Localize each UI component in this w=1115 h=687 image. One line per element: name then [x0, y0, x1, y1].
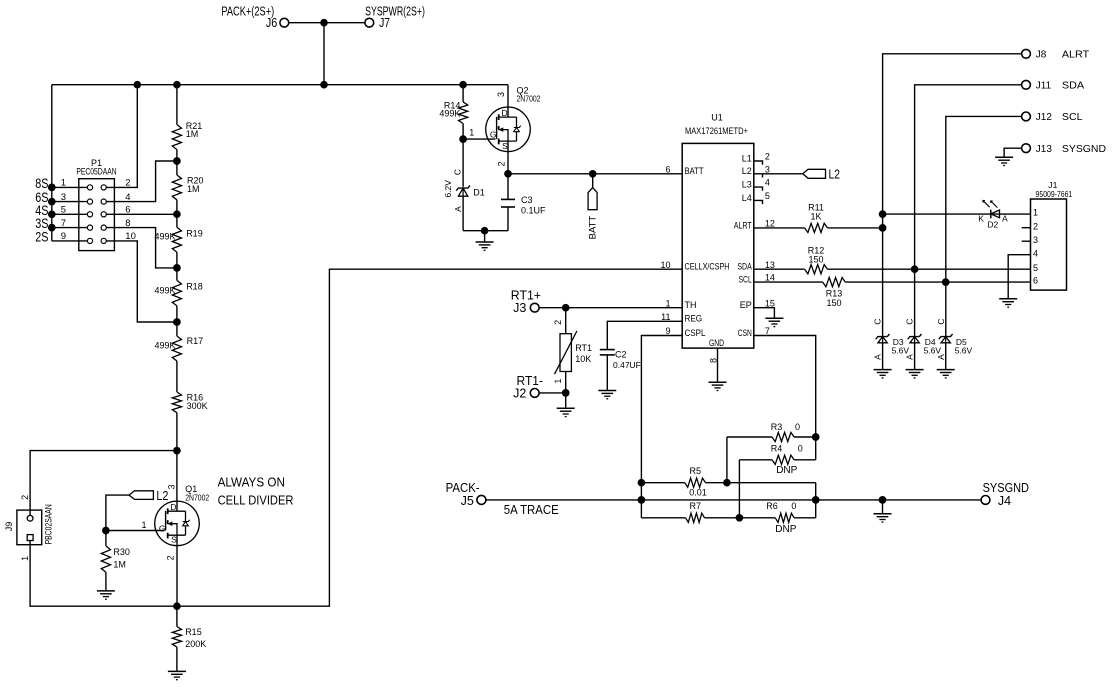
svg-text:14: 14 [765, 273, 775, 283]
diode D5 zener [939, 334, 953, 343]
svg-text:SCL: SCL [739, 275, 752, 285]
value J1 95009-7661 [1036, 189, 1073, 199]
svg-text:A: A [936, 354, 946, 360]
pin name GND [709, 338, 724, 348]
wire R13 to J1 pin6 [845, 281, 1030, 283]
wire J1 pin4 to ground [1008, 255, 1030, 299]
wire R17 to R16 [176, 361, 178, 392]
svg-text:5: 5 [765, 191, 770, 201]
svg-text:5.6V: 5.6V [924, 345, 942, 355]
wire R16 to Q1 drain [176, 413, 178, 502]
pin number J9-2 [20, 495, 30, 500]
label SDA [1062, 81, 1085, 92]
svg-text:2N7002: 2N7002 [517, 93, 541, 103]
svg-text:7: 7 [61, 218, 66, 229]
junction bus/R21 [173, 81, 181, 89]
pin stub J1-3 [1022, 240, 1031, 242]
wire C3 bottom lead [507, 207, 509, 231]
junction bus/P1 pin2 [133, 81, 141, 89]
svg-text:2: 2 [553, 320, 563, 325]
svg-text:K: K [978, 213, 984, 223]
ground J13 [995, 157, 1013, 165]
label R5 [690, 466, 702, 476]
label J13 [1036, 144, 1053, 155]
wire J8 to ALRT net [883, 54, 1022, 337]
pin number 11 [661, 312, 670, 322]
led D2 triangle [991, 210, 1000, 218]
pin number Q1-1 [142, 520, 147, 530]
svg-text:1: 1 [469, 127, 474, 137]
pin number 6 [665, 164, 670, 174]
svg-text:1: 1 [142, 520, 147, 530]
label J2 [513, 386, 526, 400]
svg-text:13: 13 [765, 260, 775, 270]
pin name CELLX/CSPH [685, 262, 730, 272]
wire Q2 source to BATT line [507, 152, 509, 174]
resistor R11 [805, 223, 828, 232]
svg-text:11: 11 [661, 312, 670, 322]
svg-text:2: 2 [1033, 221, 1038, 231]
junction Q2 source/C3 node [504, 170, 512, 178]
svg-text:MAX17261METD+: MAX17261METD+ [685, 126, 748, 136]
label D2 [987, 220, 998, 230]
label ALWAYS ON [218, 475, 285, 490]
svg-text:7: 7 [765, 326, 770, 336]
wire J2 to RT1 [539, 392, 566, 394]
label R17 [187, 336, 204, 346]
svg-text:C: C [873, 318, 883, 324]
pin number 7 [61, 218, 66, 229]
wire gate node to D1 [462, 139, 464, 187]
label J11 [1036, 81, 1052, 92]
label Q1 [185, 484, 197, 494]
value R3 0 [795, 422, 800, 432]
resistor R14 [459, 102, 468, 124]
ground C2 [598, 391, 616, 399]
pin P1-5 circle [87, 212, 92, 217]
wire CELLX/CSPH to bottom rail [177, 269, 682, 606]
thermistor RT1 body [560, 334, 571, 372]
pin number 5 [61, 205, 66, 216]
label U1 [711, 112, 723, 122]
pin J9-1 square [27, 535, 33, 541]
svg-text:U1: U1 [711, 112, 723, 122]
pin number Q2-3 [496, 92, 506, 97]
wire R3 left to R5 line [726, 437, 728, 483]
pin stub L3 [754, 187, 763, 191]
resistor R4 [772, 455, 794, 464]
svg-text:G: G [490, 129, 497, 139]
ground EP [765, 318, 783, 326]
svg-text:PACK+(2S+): PACK+(2S+) [221, 4, 274, 18]
label J7 [379, 16, 390, 30]
pin P1-9 circle [87, 238, 92, 243]
value R19 499K [154, 232, 175, 242]
svg-text:0.01: 0.01 [689, 487, 707, 497]
label PEC05DAAN [76, 167, 116, 177]
wire RT1 bottom lead [565, 372, 567, 393]
net label L2 (U1) [829, 168, 841, 182]
wire P1 pin4 to R21/R20 node [106, 161, 177, 202]
wire L2 flag to Q1 gate node [106, 495, 129, 530]
svg-text:J2: J2 [513, 386, 526, 400]
wire P1 pin2 to bus [106, 85, 137, 188]
pin stub L4 [754, 200, 763, 204]
svg-text:L3: L3 [742, 180, 752, 190]
led D2 cathode bar [990, 210, 992, 219]
op-amp U1 MAX17261METD+ body [682, 143, 754, 348]
pin number J1-6 [1033, 276, 1038, 286]
pin P1-10 circle [101, 238, 106, 243]
svg-text:0: 0 [791, 501, 796, 511]
svg-text:150: 150 [808, 255, 823, 265]
svg-text:SYSGND: SYSGND [983, 481, 1029, 495]
junction R5/CSPL node [638, 479, 646, 487]
label J8 [1036, 50, 1047, 61]
pin stub J1-2 [1022, 227, 1031, 229]
wire U1 SDA to R12 [754, 268, 805, 270]
wire RT1 top lead [565, 308, 567, 334]
ground D1/C3 [476, 242, 494, 250]
svg-text:DNP: DNP [776, 465, 797, 476]
label R3 [771, 422, 783, 432]
pin name EP [740, 300, 752, 310]
svg-text:15: 15 [765, 298, 775, 308]
wire J12 to SCL net [946, 116, 1022, 336]
svg-text:SDA: SDA [737, 262, 751, 272]
wire P1 pin6 to R20/R19 node [106, 213, 177, 215]
svg-text:R5: R5 [690, 466, 702, 476]
svg-text:L2: L2 [156, 489, 168, 503]
ground J1 pin4 [999, 299, 1017, 307]
net flag BATT [588, 188, 597, 210]
svg-text:SYSGND: SYSGND [1062, 144, 1106, 155]
svg-text:C: C [905, 318, 915, 324]
junction BATT flag node [589, 170, 597, 178]
junction Q1 gate/R30 node [102, 527, 110, 535]
value RT1 10K [575, 354, 591, 364]
junction R20/R19 node [173, 210, 181, 218]
junction TH/RT1 node [562, 304, 570, 312]
resistor R18 [172, 280, 181, 306]
svg-text:L1: L1 [742, 153, 752, 163]
wire gate node to R30 [105, 531, 107, 547]
svg-text:J3: J3 [513, 301, 526, 315]
svg-text:L2: L2 [829, 168, 841, 182]
wire R12 to J1 pin5 [828, 268, 1031, 270]
junction ALRT/D2 node [879, 210, 887, 218]
label 2S [35, 229, 48, 244]
pin P1-8 circle [101, 225, 106, 230]
label R15 [185, 627, 202, 637]
wire P1 pin10 to R18/R17 node [106, 241, 177, 322]
wire U1 L2 pin to flag [754, 174, 803, 178]
pin number 9 [61, 231, 66, 242]
wire R11 to ALRT vertical [828, 227, 883, 229]
svg-text:R15: R15 [185, 627, 202, 637]
pin number 1 [61, 178, 66, 189]
svg-text:SYSPWR(2S+): SYSPWR(2S+) [365, 4, 425, 18]
label R4 [771, 443, 783, 453]
label D4 A [905, 354, 915, 360]
label PACK+(2S+) [221, 4, 274, 18]
wire R5 end down to R6 [815, 483, 817, 518]
pin number 3 [765, 164, 770, 174]
svg-text:1: 1 [1033, 208, 1038, 218]
value R16 300K [187, 401, 208, 411]
svg-text:C2: C2 [615, 350, 627, 360]
wire P1 pin8 to R19/R18 node [106, 228, 177, 268]
connector J5 [477, 495, 486, 504]
wire R21 to R20 [176, 150, 178, 175]
svg-text:2: 2 [497, 161, 507, 166]
wire U1 EP to ground [754, 308, 775, 319]
wire R7 left lead [641, 517, 685, 519]
label R6 [766, 501, 778, 511]
pin name L4 [742, 193, 752, 203]
junction bottom ground node [481, 227, 489, 235]
label 4S [35, 203, 48, 218]
junction CSN/R3 node [812, 433, 820, 441]
svg-text:5: 5 [1033, 263, 1038, 273]
wire D1/C3 bottom link [463, 230, 508, 232]
junction bus/R14 [459, 81, 467, 89]
wire R20 to R19 [176, 200, 178, 228]
resistor R15 [172, 627, 181, 648]
wire J3 to U1 TH [539, 307, 682, 309]
resistor R16 [172, 392, 181, 413]
label 5A TRACE [504, 503, 559, 517]
pin P1-6 circle [101, 212, 106, 217]
junction PACK-/CSPL node [638, 496, 646, 504]
svg-text:REG: REG [685, 314, 703, 324]
svg-text:6: 6 [1033, 276, 1038, 286]
wire gate node to Q2 gate [463, 138, 495, 140]
svg-text:SDA: SDA [1062, 81, 1085, 92]
pin number J1-5 [1033, 263, 1038, 273]
svg-text:1: 1 [61, 178, 66, 189]
label D3 C [873, 318, 883, 324]
svg-text:D1: D1 [473, 188, 485, 198]
pin name REG [685, 314, 703, 324]
value D5 5.6V [955, 345, 973, 355]
svg-text:499K: 499K [439, 109, 460, 119]
junction J6/J7 node [320, 19, 328, 27]
svg-text:R7: R7 [690, 501, 702, 511]
junction R19/R18 node [173, 264, 181, 272]
connector J3 [530, 303, 539, 312]
svg-text:J8: J8 [1036, 50, 1047, 61]
wire P1 left pin 3 lead [52, 201, 88, 203]
svg-text:J13: J13 [1036, 144, 1053, 155]
wire R4 left to R7 line [738, 460, 740, 518]
pin name TH [685, 300, 697, 310]
svg-text:5.6V: 5.6V [892, 345, 910, 355]
connector J9 body [17, 510, 42, 545]
svg-text:3: 3 [496, 92, 506, 97]
svg-text:499K: 499K [154, 340, 175, 350]
svg-text:S: S [502, 141, 508, 151]
wire U1 CSN to R3/R4 [754, 336, 816, 460]
pin number 9 [665, 326, 670, 336]
svg-text:EP: EP [740, 300, 752, 310]
ground RT1 [557, 408, 575, 416]
label SYSGND (J13) [1062, 144, 1106, 155]
junction SCL/J12 node [942, 278, 950, 286]
wire bus to R14 [462, 85, 464, 102]
value R6 0 [791, 501, 796, 511]
value R5 0.01 [689, 487, 707, 497]
pin number 10 [660, 260, 670, 270]
wire P1 left pin 9 lead [52, 240, 88, 242]
wire PACK+ bus [52, 84, 508, 86]
svg-text:C3: C3 [521, 195, 533, 205]
wire C3 top lead [507, 174, 509, 200]
label Q1 S [171, 535, 177, 545]
svg-text:BATT: BATT [685, 166, 704, 176]
svg-text:R19: R19 [186, 228, 203, 238]
value R13 150 [826, 298, 841, 308]
svg-text:ALRT: ALRT [1062, 50, 1089, 61]
transistor Q1 2N7002 [155, 501, 200, 546]
pin number 1 [665, 298, 670, 308]
svg-text:5A TRACE: 5A TRACE [504, 503, 559, 517]
pin number 4 [765, 178, 770, 188]
value R30 1M [113, 559, 126, 569]
connector J7 [365, 18, 374, 27]
pin number J9-1 [20, 556, 30, 561]
pin number 5 [765, 191, 770, 201]
label J9 [4, 522, 14, 532]
label Q2 G [490, 129, 497, 139]
svg-text:1M: 1M [187, 184, 200, 194]
label R21 [186, 121, 203, 131]
label R7 [690, 501, 702, 511]
label D3 [893, 337, 904, 347]
transistor Q2 2N7002 [486, 107, 531, 152]
pin P1-3 circle [87, 199, 92, 204]
svg-text:0.47UF: 0.47UF [613, 360, 641, 370]
pin name SDA [737, 262, 751, 272]
wire PACK- ground stem [882, 500, 884, 514]
label R19 [186, 228, 203, 238]
label R6 DNP [775, 524, 796, 535]
pin name BATT [685, 166, 704, 176]
wire R4 line [739, 459, 772, 461]
pin P1-2 circle [101, 185, 106, 190]
junction R18/R17 node [173, 318, 181, 326]
svg-text:J11: J11 [1036, 81, 1052, 92]
capacitor C2 [600, 350, 615, 355]
label SYSGND (J4) [983, 481, 1029, 495]
value Q2 2N7002 [517, 93, 541, 103]
value R18 499K [154, 286, 175, 296]
pin P1-4 circle [101, 199, 106, 204]
pin P1-7 circle [87, 225, 92, 230]
junction RT1/ground node [562, 389, 570, 397]
junction Q2 gate/D1 node [459, 135, 467, 143]
svg-text:1: 1 [665, 298, 670, 308]
svg-text:5.6V: 5.6V [955, 345, 973, 355]
pin number RT1-2 [553, 320, 563, 325]
label RT1 [575, 343, 592, 353]
wire bottom rail to R15 [176, 606, 178, 626]
label J1 [1048, 180, 1057, 190]
svg-text:1M: 1M [113, 559, 126, 569]
net flag L2 (U1) [803, 169, 826, 178]
label R20 [187, 176, 204, 186]
svg-text:0.1UF: 0.1UF [521, 206, 546, 216]
svg-text:1: 1 [553, 379, 563, 384]
label Q1 D [170, 502, 176, 512]
node 3S [48, 224, 56, 232]
value R21 1M [186, 129, 199, 139]
value D4 5.6V [924, 345, 942, 355]
pin number 4 [125, 192, 130, 203]
label D5 C [936, 318, 946, 324]
pin number 10 [125, 231, 136, 242]
label ALRT [1062, 50, 1089, 61]
svg-text:D: D [170, 502, 176, 512]
svg-text:2: 2 [765, 152, 770, 162]
label R4 DNP [776, 465, 797, 476]
resistor R3 [772, 432, 794, 441]
wire U1 ALRT to R11 [754, 227, 805, 229]
svg-text:PEC05DAAN: PEC05DAAN [76, 167, 116, 177]
label D1 C [453, 169, 463, 175]
label Q2 [517, 86, 529, 96]
resistor R19 [172, 227, 181, 252]
label C3 [521, 195, 533, 205]
pin number 13 [765, 260, 775, 270]
value R11 1K [810, 212, 821, 222]
wire U1 SCL to R13 [754, 281, 823, 283]
pin number Q2-1 [469, 127, 474, 137]
junction R16/J9 node [173, 447, 181, 455]
pin number Q2-2 [497, 161, 507, 166]
wire U1 GND pin8 to ground [717, 348, 719, 382]
wire R19 to R18 [176, 252, 178, 280]
label 6S [35, 190, 48, 205]
svg-text:CSN: CSN [738, 328, 752, 338]
label D2 A [1002, 213, 1008, 223]
wire R3 line [727, 436, 772, 438]
svg-text:J9: J9 [4, 522, 14, 532]
svg-text:BATT: BATT [588, 216, 599, 240]
pin name SCL [739, 275, 752, 285]
junction R21/R20 node [173, 157, 181, 165]
svg-text:C: C [936, 318, 946, 324]
svg-text:A: A [905, 354, 915, 360]
pin number Q1-2 [165, 555, 175, 560]
pin J9-2 circle [27, 515, 33, 521]
junction R7/R4 node [736, 514, 744, 522]
svg-text:0: 0 [795, 422, 800, 432]
label D4 C [905, 318, 915, 324]
junction PACK-/ground node [879, 496, 887, 504]
ground R15 [168, 671, 186, 679]
ground GND pin8 [709, 382, 727, 390]
svg-text:499K: 499K [154, 232, 175, 242]
wire left cell-select vertical [51, 85, 53, 241]
pin name L3 [742, 180, 752, 190]
label D1 [473, 188, 485, 198]
label R11 [808, 202, 824, 212]
svg-text:S: S [171, 535, 177, 545]
svg-text:R18: R18 [186, 282, 203, 292]
wire R14 to Q2 gate node [462, 124, 464, 140]
wire to ground stem [484, 231, 486, 242]
